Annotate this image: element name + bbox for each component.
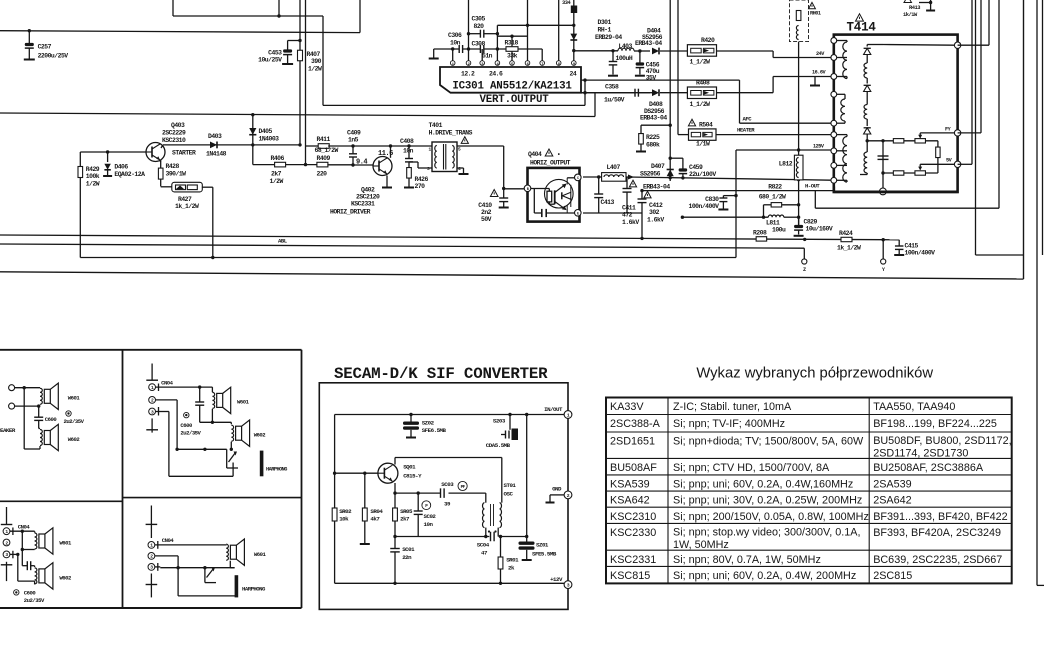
svg-text:SC03: SC03 [441,481,454,488]
connector CN04 TR [146,364,173,433]
svg-text:68_1/2W: 68_1/2W [315,147,339,154]
svg-text:R407: R407 [307,51,321,58]
svg-text:1/2W: 1/2W [308,66,322,73]
svg-text:2k7: 2k7 [400,516,410,523]
op-amp U1 IC301 box [440,67,581,93]
svg-text:10k: 10k [339,516,349,523]
svg-text:Q404: Q404 [528,151,542,158]
transformer T414 left pins [831,38,837,184]
svg-text:100n/400V: 100n/400V [905,250,936,257]
svg-text:KSC2310: KSC2310 [610,511,656,523]
table row 2SC388-A [610,418,997,430]
svg-text:C305: C305 [472,16,486,23]
svg-text:R424: R424 [839,230,853,237]
svg-text:W601: W601 [68,395,81,402]
capacitor C453 [258,41,300,65]
svg-text:C453: C453 [268,50,282,57]
svg-text:S203: S203 [493,418,506,425]
node H-OUT pin [880,188,887,195]
svg-text:L403: L403 [619,43,633,50]
wire main supply line [0,0,360,33]
speaker W602 BL [35,563,72,589]
resistor SR01 [498,537,519,586]
warning triangle C410 [490,190,498,197]
svg-text:1k/1W: 1k/1W [903,12,918,18]
wire H-OUT line [642,183,999,209]
svg-text:3: 3 [427,166,430,172]
ground IC pin1 input [429,49,453,59]
svg-text:2n2: 2n2 [481,209,492,216]
capacitor C409 [347,130,361,167]
svg-text:47: 47 [481,550,488,557]
wire BR pin2 [155,556,236,596]
wire right vertical 989 [958,0,989,45]
svg-text:Si; pnp; uni; 60V, 0.2A, 0.4W,: Si; pnp; uni; 60V, 0.2A, 0.4W,160MHz [673,479,853,491]
svg-text:+12V: +12V [550,576,563,583]
svg-text:C411: C411 [622,205,636,212]
svg-text:270: 270 [415,183,426,190]
wire TL return [24,388,40,449]
wire SQ01 collector line [395,458,502,503]
capacitor C410 [478,189,508,224]
capacitor C413 [594,177,614,213]
table row KSC2331 [610,554,1002,566]
svg-text:334: 334 [562,0,571,6]
svg-text:CN04: CN04 [18,524,31,531]
label SECAM title [334,365,548,383]
svg-text:5: 5 [458,147,461,153]
svg-text:BF391...393, BF420, BF422: BF391...393, BF420, BF422 [873,511,1007,523]
svg-text:KSC2330: KSC2330 [610,527,656,539]
ceramic resonator S203 [486,415,518,450]
wire ABL line [0,238,804,249]
svg-text:2u2/35V: 2u2/35V [64,418,85,425]
speaker panel grid [0,350,302,608]
svg-text:KA33V: KA33V [610,401,644,413]
svg-text:1/2W: 1/2W [86,181,100,188]
wire long horizontal line upper [0,93,595,117]
svg-text:ABL: ABL [278,238,288,245]
wire collector line to T401 [328,144,432,147]
svg-text:ERB29-04: ERB29-04 [595,34,622,41]
svg-text:680_1/2W: 680_1/2W [759,194,786,201]
svg-text:R208: R208 [753,230,767,237]
svg-text:HEATER: HEATER [737,127,755,134]
svg-text:4k7: 4k7 [370,516,380,523]
table row KSC2310 [610,511,1008,523]
svg-text:1_1/2W: 1_1/2W [690,101,711,108]
wire BR pin1 [155,544,226,547]
svg-text:R413: R413 [909,5,920,11]
table row KA33V [610,401,955,413]
svg-text:H.DRIVE_TRANS: H.DRIVE_TRANS [429,130,473,137]
svg-text:Z-IC; Stabil. tuner, 10mA: Z-IC; Stabil. tuner, 10mA [673,401,792,413]
svg-text:D301: D301 [598,19,612,26]
svg-text:2u2/35V: 2u2/35V [24,597,45,604]
resistor R411 [306,136,339,154]
svg-text:W602: W602 [59,575,72,582]
label SPEAKER clipped [0,427,16,434]
ground T401 pin4 [457,168,469,174]
svg-text:Wykaz wybranych półprzewodnikó: Wykaz wybranych półprzewodników [696,366,933,382]
wire T414 bottom thick [834,187,958,192]
connector CN04 BR [146,506,175,598]
svg-text:4: 4 [458,166,461,172]
svg-text:TAA550, TAA940: TAA550, TAA940 [873,401,955,413]
capacitor SC03 [441,481,468,508]
wire T401 pin3 [409,162,432,168]
transformer T414 warning [856,14,864,21]
svg-text:1n5: 1n5 [348,137,359,144]
svg-text:390: 390 [311,58,322,65]
transformer T414 HV diode chain [860,45,955,175]
wire TR pin3 and jack bottom [156,412,234,477]
label VERT.OUTPUT [479,94,549,106]
wire schematic border [0,0,1024,279]
svg-text:2k: 2k [508,565,515,572]
svg-text:PEAKER: PEAKER [0,427,16,434]
svg-text:1.6kV: 1.6kV [647,217,664,224]
resistor R426 [404,168,429,190]
svg-text:W601: W601 [237,399,250,406]
wire right vertical 999 [998,0,1000,208]
capacitor C257 [24,29,68,60]
wire Q404 emitter return [583,213,644,240]
svg-text:302: 302 [649,209,660,216]
svg-text:2SC388-A: 2SC388-A [610,418,661,430]
svg-text:SC04: SC04 [477,542,490,549]
svg-text:KSA642: KSA642 [610,495,650,507]
svg-text:C459: C459 [689,164,703,171]
resistor R408 [687,80,716,108]
svg-text:16.6V: 16.6V [812,70,826,76]
svg-text:CDA5.5MB: CDA5.5MB [486,442,511,449]
capacitor C829 [794,217,833,236]
diode D405 [249,115,279,147]
svg-text:125V: 125V [813,144,825,150]
svg-text:2SC2229: 2SC2229 [162,130,186,137]
svg-text:R427: R427 [178,196,192,203]
svg-text:SZ02: SZ02 [422,420,435,427]
svg-text:VERT.OUTPUT: VERT.OUTPUT [479,94,549,106]
svg-text:2SD1174, 2SD1730: 2SD1174, 2SD1730 [873,448,968,460]
svg-text:R429: R429 [86,166,100,173]
svg-text:SC02: SC02 [424,513,437,520]
svg-text:R822: R822 [768,184,782,191]
svg-text:R225: R225 [646,134,660,141]
resistor SR02 [332,508,352,523]
svg-text:10u/25V: 10u/25V [258,57,282,64]
svg-text:HARPHONG: HARPHONG [242,586,266,593]
svg-text:35V: 35V [646,75,657,82]
svg-text:5V: 5V [946,158,953,164]
resistor SR05 [393,493,413,536]
transistor Q404 output block [524,149,581,222]
svg-text:RH01: RH01 [810,11,821,17]
svg-text:KSC2310: KSC2310 [162,137,186,144]
connector CN04 BL [1,507,31,581]
svg-text:KSC2331: KSC2331 [351,201,375,208]
svg-text:T401: T401 [429,122,443,129]
wire heater feed vertical [678,0,689,135]
resistor SR04 [360,473,384,544]
svg-text:C257: C257 [38,44,52,51]
svg-text:2u2/35V: 2u2/35V [180,430,201,437]
svg-text:Y: Y [882,267,886,273]
capacitor SC02 [414,493,437,536]
svg-text:1N4003: 1N4003 [259,136,280,143]
svg-text:C600: C600 [45,416,58,423]
transistor SQ01 [378,463,422,483]
wire bus line 2 [304,0,307,166]
svg-text:W602: W602 [68,436,81,443]
svg-text:100uH: 100uH [616,55,633,62]
svg-text:R426: R426 [415,176,429,183]
resistor R225 [636,125,670,151]
SECAM converter box [319,383,568,610]
table row KSA642 [610,495,912,507]
svg-text:Z: Z [803,267,806,273]
node Y terminal [881,240,886,273]
svg-text:KSC2331: KSC2331 [610,554,656,566]
svg-text:ERB43-04: ERB43-04 [643,184,670,191]
transformer T414 5V tap [918,158,957,171]
resistor R208 [753,230,767,242]
table row KSA539 [610,479,912,491]
capacitor C408 [400,138,414,168]
resistor R504 [688,119,716,147]
node speaker input terminals [9,385,41,409]
transformer T414 FY tap [918,127,957,139]
wire right vertical 972 [958,0,972,164]
transformer T401 [427,122,473,172]
capacitor C415 [894,240,935,257]
capacitor C305 [467,16,499,38]
svg-text:D406: D406 [114,164,128,171]
resistor R413 area [903,0,935,18]
svg-text:R406: R406 [271,155,285,162]
zener diode D406 [103,152,145,178]
svg-text:L407: L407 [607,164,621,171]
resistor R424 [837,230,861,252]
svg-text:SECAM-D/K SIF CONVERTER: SECAM-D/K SIF CONVERTER [334,365,548,383]
svg-text:C829: C829 [804,219,818,226]
svg-text:BF393, BF420A, 2SC3249: BF393, BF420A, 2SC3249 [873,527,1001,539]
wire SC03 line [393,483,486,503]
wire AFC line [740,80,831,123]
wire R408 to 16.6V pin [717,70,831,93]
svg-text:100u: 100u [772,227,786,234]
svg-text:R411: R411 [317,136,331,143]
wire 125V line [734,144,831,258]
table row BU508AF [610,462,984,474]
svg-text:C600: C600 [24,590,37,597]
svg-text:EQA02-12A: EQA02-12A [114,171,145,178]
wire right vertical 1042 [1042,0,1044,255]
svg-text:1k_1/2W: 1k_1/2W [175,203,199,210]
wire R406 line [253,145,317,165]
svg-text:24.6: 24.6 [489,71,503,78]
resistor RH01 dashed box [790,0,821,42]
wire Q403 base line [80,150,146,153]
svg-text:12.2: 12.2 [461,71,475,78]
svg-text:100k: 100k [86,173,100,180]
wire right vertical 975 [976,0,1024,255]
svg-text:Si; npn; uni; 60V, 0.2A, 0.4W,: Si; npn; uni; 60V, 0.2A, 0.4W, 200MHz [673,570,856,582]
svg-text:390/1W: 390/1W [166,171,187,178]
svg-text:IC301 AN5512/KA2131: IC301 AN5512/KA2131 [452,81,572,93]
svg-text:820: 820 [474,23,485,30]
capacitor C600 TL [34,406,57,428]
capacitor filter at L403 [608,49,618,76]
transformer T414 box [834,35,958,192]
resistor R427 [161,182,215,259]
wire top-left corner segment [173,0,323,16]
svg-text:Si; npn; 200/150V, 0.05A, 0.8W: Si; npn; 200/150V, 0.05A, 0.8W, 100MHz [673,511,869,523]
transistor Q403 [146,122,196,162]
speaker W602 TL [39,424,81,450]
node IN/OUT terminal [544,406,572,419]
table row KSC815 [610,570,912,582]
svg-text:2200u/25V: 2200u/25V [38,53,69,60]
svg-text:C409: C409 [347,130,361,137]
svg-text:T414: T414 [847,21,877,35]
resistor R429 [78,152,100,258]
wire TR pin1 [156,385,213,392]
transformer T414 right terminals [954,42,960,168]
svg-text:C306: C306 [448,32,462,39]
svg-text:ERB43-04: ERB43-04 [635,40,662,47]
svg-text:W602: W602 [254,432,267,439]
wire vert-output enclosure left edge [323,16,585,105]
svg-text:2SD1651: 2SD1651 [610,436,655,448]
label C358 [604,84,625,104]
svg-text:10n: 10n [424,521,434,528]
IC301 pin circles [450,61,576,67]
wire T401 pin5 to Q404 base [457,146,524,190]
capacitor C456 [635,49,660,81]
svg-text:ERB43-04: ERB43-04 [640,115,667,122]
svg-text:R420: R420 [701,37,715,44]
inductor L407 [583,164,626,181]
svg-text:680k: 680k [646,142,660,149]
svg-text:10n: 10n [403,148,414,155]
capacitor C830 [688,196,736,210]
svg-text:GND: GND [552,486,562,493]
resistor R318 [467,40,542,60]
svg-text:HARPHONG: HARPHONG [266,467,287,473]
wire SQ01 base line [333,472,378,475]
wire BL pin3 [10,553,35,585]
svg-text:C358: C358 [605,84,619,91]
svg-text:SR05: SR05 [400,508,413,515]
svg-text:Si; npn; stop.wy video; 300/30: Si; npn; stop.wy video; 300/300V, 0.1A, [673,526,860,538]
transformer ST01 [482,482,516,533]
svg-text:Si; npn; 80V, 0.7A, 1W, 50MHz: Si; npn; 80V, 0.7A, 1W, 50MHz [673,554,821,566]
svg-text:AFC: AFC [743,116,753,123]
svg-text:1W, 50MHz: 1W, 50MHz [673,539,729,551]
svg-text:R504: R504 [699,122,713,129]
svg-text:10u/160V: 10u/160V [806,226,833,233]
table row 2SD1651 [610,435,1012,460]
svg-text:H-OUT: H-OUT [805,183,820,190]
label table title [696,366,933,382]
svg-text:1N4148: 1N4148 [206,151,227,158]
resistor R407 [298,50,323,72]
svg-text:W601: W601 [254,551,267,558]
svg-text:C412: C412 [649,202,663,209]
capacitor C308 [472,41,507,60]
svg-text:51n: 51n [482,53,493,60]
svg-text:RH-1: RH-1 [598,27,612,34]
ceramic filter SZ01 [519,415,557,561]
wire right vertical 980 FY [958,0,981,133]
wire SECAM +12V line [335,582,564,584]
svg-text:Si; npn; TV-IF; 400MHz: Si; npn; TV-IF; 400MHz [673,418,785,430]
svg-text:SR01: SR01 [506,557,519,564]
svg-text:22u/100V: 22u/100V [689,171,716,178]
svg-text:2SC2120: 2SC2120 [356,194,380,201]
svg-text:2SA539: 2SA539 [873,479,911,491]
earphone jack BR [205,568,266,598]
svg-text:1/2W: 1/2W [270,178,284,185]
capacitor C600 BL [21,531,35,570]
svg-text:2SC815: 2SC815 [873,570,912,582]
ground 16.6V line [810,77,820,86]
svg-text:C815-Y: C815-Y [403,473,422,480]
label C600 value TL [64,411,85,425]
speaker W601 BR [226,539,266,565]
svg-text:L811: L811 [766,220,780,227]
table semiconductor list frame [606,398,1012,584]
wire D407 vertical [669,0,672,181]
capacitor C600 TR [180,387,204,436]
svg-text:BU508AF: BU508AF [610,462,657,474]
svg-text:Q403: Q403 [171,122,185,129]
svg-text:D407: D407 [651,163,665,170]
svg-text:SS2956: SS2956 [640,171,661,178]
label C600 value BL [14,590,45,605]
svg-text:1: 1 [429,147,432,153]
svg-text:D403: D403 [208,133,222,140]
warning triangle T401 [461,137,468,144]
capacitor C459 [670,158,716,178]
wire TR pin2 and jack top [156,400,233,451]
transformer T414 divider network [867,139,940,192]
speaker W602 TR [231,420,266,446]
svg-text:BU508DF, BU800, 2SD1172,: BU508DF, BU800, 2SD1172, [873,435,1011,447]
svg-text:IN/OUT: IN/OUT [544,406,563,413]
wire vertical into top corner [277,0,280,18]
diode D404 [635,28,687,55]
svg-text:L812: L812 [779,161,793,168]
wire long line C [80,257,736,259]
wire HEATER line [716,127,831,135]
svg-text:C830: C830 [705,196,719,203]
svg-text:R428: R428 [166,163,180,170]
wire bus line 1 [298,0,301,147]
inductor L811 [681,215,801,234]
capacitor SC04 [477,532,494,557]
svg-text:2k7: 2k7 [271,171,282,178]
node voltage 11.6 [378,150,393,158]
transformer T414 primary windings [837,41,847,183]
resistor R822 [759,184,801,218]
svg-text:R409: R409 [317,155,331,162]
wire IC pin verticals [453,0,574,61]
svg-text:50V: 50V [481,216,492,223]
svg-text:1u/50V: 1u/50V [604,97,625,104]
